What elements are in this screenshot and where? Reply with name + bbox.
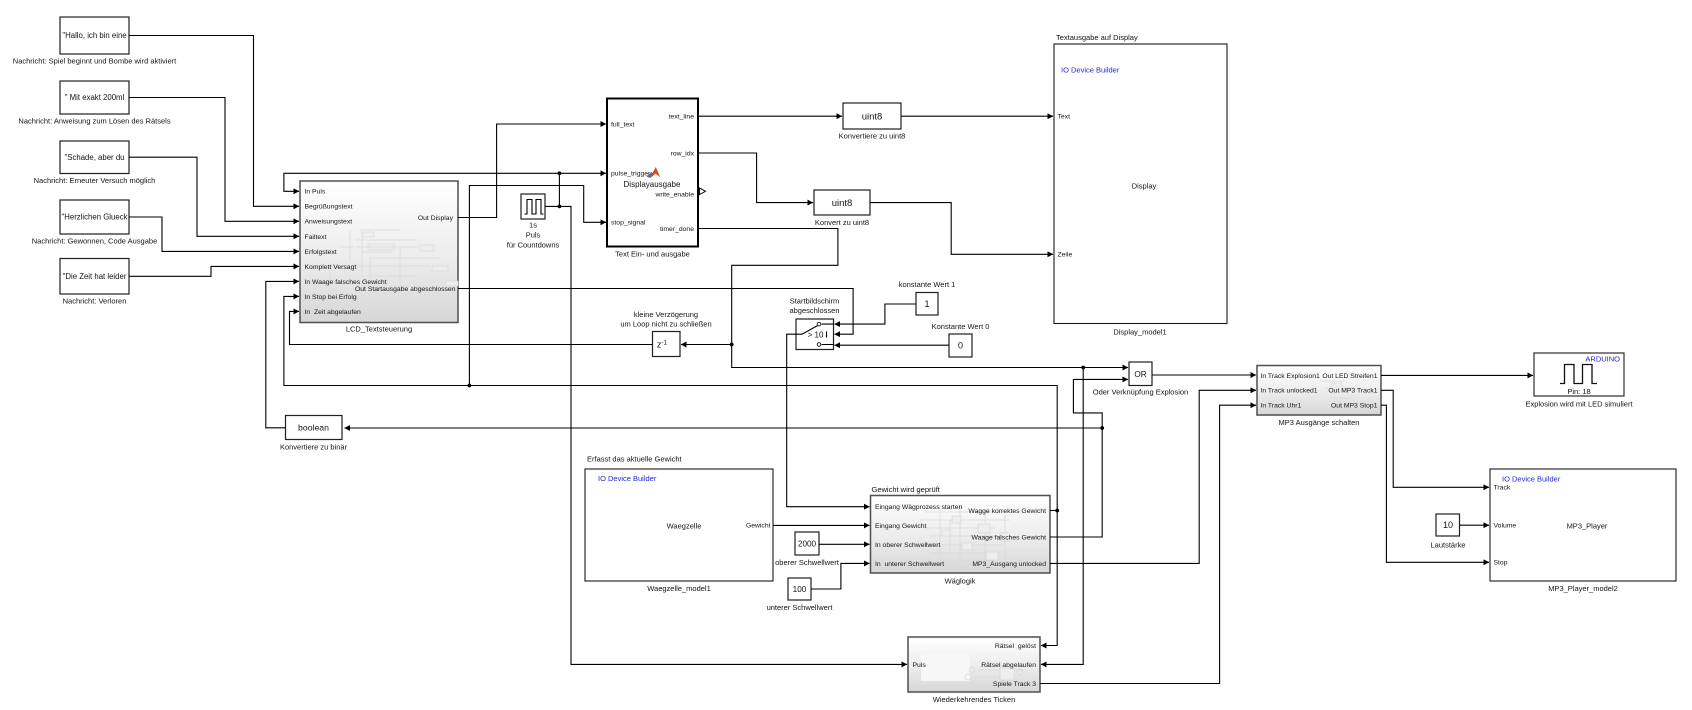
svg-text:Erfolgstext: Erfolgstext — [305, 249, 337, 256]
svg-text:für Countdowns: für Countdowns — [507, 241, 560, 250]
string constant MSG5 — [60, 259, 129, 306]
svg-text:0: 0 — [958, 341, 963, 351]
svg-text:Nachricht: Anweisung zum Lösen: Nachricht: Anweisung zum Lösen des Rätse… — [18, 117, 170, 126]
svg-text:stop_signal: stop_signal — [611, 220, 646, 227]
svg-text:konstante Wert 1: konstante Wert 1 — [899, 280, 956, 289]
wire pulse to In Puls — [284, 173, 560, 191]
svg-text:Failtext: Failtext — [305, 234, 327, 241]
wire pulse out to Puls (Ticken) — [545, 206, 907, 664]
svg-text:In oberer Schwellwert: In oberer Schwellwert — [875, 542, 940, 549]
svg-text:Track: Track — [1494, 485, 1511, 492]
svg-text:Eingang Gewicht: Eingang Gewicht — [875, 523, 926, 530]
svg-text:Nachricht: Gewonnen, Code Ausg: Nachricht: Gewonnen, Code Ausgabe — [32, 237, 158, 246]
logical operator OR — [1093, 362, 1188, 397]
svg-text:MP3_Player: MP3_Player — [1567, 522, 1608, 531]
svg-text:Display: Display — [1132, 182, 1157, 191]
MATLAB function block Text Ein- und ausgabe — [607, 99, 706, 259]
constant 0 (Konstante Wert 0) — [932, 322, 990, 357]
svg-text:In Track Uhr1: In Track Uhr1 — [1261, 403, 1302, 410]
svg-text:"Hallo, ich bin eine: "Hallo, ich bin eine — [62, 31, 126, 40]
svg-text:Rätsel abgelaufen: Rätsel abgelaufen — [981, 662, 1036, 669]
svg-text:Spiele Track 3: Spiele Track 3 — [993, 681, 1036, 688]
svg-text:Nachricht: Spiel beginnt und B: Nachricht: Spiel beginnt und Bombe wird … — [13, 57, 177, 66]
svg-text:Explosion wird mit LED simulie: Explosion wird mit LED simuliert — [1525, 400, 1633, 409]
subsystem Waeglogik — [871, 485, 1051, 586]
svg-text:Oder Verknüpfung Explosion: Oder Verknüpfung Explosion — [1093, 388, 1188, 397]
svg-text:Rätsel gelöst: Rätsel gelöst — [995, 643, 1036, 650]
svg-text:Komplett Versagt: Komplett Versagt — [305, 264, 357, 271]
svg-text:Puls: Puls — [913, 662, 927, 669]
wire row_idx to uint8 2 — [698, 153, 813, 203]
svg-text:Waegzelle_model1: Waegzelle_model1 — [647, 584, 711, 593]
svg-text:write_enable: write_enable — [654, 192, 694, 199]
svg-text:Nachricht: Erneuter Versuch mö: Nachricht: Erneuter Versuch möglich — [34, 176, 156, 185]
wire korrektes to Raetsel geloest — [1041, 511, 1057, 646]
svg-text:oberer Schwellwert: oberer Schwellwert — [775, 558, 840, 567]
svg-text:Konvertiere zu uint8: Konvertiere zu uint8 — [839, 132, 906, 141]
svg-text:In Waage falsches Gewicht: In Waage falsches Gewicht — [305, 279, 387, 286]
ARDUINO digital output Pin 18 — [1525, 353, 1633, 409]
svg-text:pulse_trigger: pulse_trigger — [611, 171, 651, 178]
svg-text:Gewicht: Gewicht — [746, 523, 771, 530]
wire uint8 to Text — [901, 115, 1053, 117]
wire uint8 2 to Zeile — [870, 203, 1053, 255]
svg-text:"Schade, aber du: "Schade, aber du — [65, 153, 125, 162]
svg-text:Begrüßungstext: Begrüßungstext — [305, 204, 353, 211]
svg-text:ARDUINO: ARDUINO — [1585, 355, 1620, 364]
svg-text:> 10: > 10 — [808, 330, 824, 339]
svg-text:In Puls: In Puls — [305, 189, 326, 196]
svg-text:In Zeit abgelaufen: In Zeit abgelaufen — [305, 309, 362, 316]
wire switch out to Eingang Waegprozess — [787, 334, 870, 507]
svg-text:Anweisungstext: Anweisungstext — [305, 219, 353, 226]
svg-text:unterer Schwellwert: unterer Schwellwert — [767, 603, 834, 612]
svg-text:Konvertiere zu binär: Konvertiere zu binär — [280, 443, 348, 452]
wire Out LED Streifen1 to Arduino — [1381, 374, 1533, 376]
wire pulse riser — [558, 173, 560, 206]
svg-text:Wagge korrektes Gewicht: Wagge korrektes Gewicht — [968, 508, 1046, 515]
wire 100 to In unterer Schwellwert — [811, 563, 870, 589]
wire korrektes to stop_signal — [469, 186, 606, 386]
svg-text:Text Ein- und ausgabe: Text Ein- und ausgabe — [615, 249, 690, 258]
data type conversion boolean — [280, 416, 348, 452]
wire falsches to OR input2 — [1050, 379, 1128, 537]
svg-text:Eingang Wägprozess starten: Eingang Wägprozess starten — [875, 504, 962, 511]
svg-text:1s: 1s — [529, 221, 537, 230]
model block Display_model1 — [1054, 33, 1227, 337]
svg-text:Waegzelle: Waegzelle — [667, 522, 702, 531]
junction falsches boolean tap — [1100, 426, 1104, 430]
svg-text:text_line: text_line — [669, 114, 695, 121]
junction korrektes — [1055, 509, 1059, 513]
svg-text:OR: OR — [1134, 370, 1146, 379]
wire const10 to Volume — [1460, 524, 1490, 526]
svg-text:MP3 Ausgänge schalten: MP3 Ausgänge schalten — [1279, 418, 1360, 427]
svg-text:Pin: 18: Pin: 18 — [1567, 387, 1590, 396]
svg-text:Wiederkehrendes Ticken: Wiederkehrendes Ticken — [933, 695, 1016, 704]
wire MSG1 to Begruessungstext — [129, 36, 299, 207]
wire timer to OR input1 — [732, 345, 1128, 368]
wire text_line to uint8 — [698, 115, 842, 117]
wire Startausgabe to switch control — [458, 289, 853, 335]
svg-text:Out LED Streifen1: Out LED Streifen1 — [1322, 373, 1377, 380]
svg-text:Out Display: Out Display — [418, 215, 454, 222]
wire unlocked to In Track unlocked1 — [1050, 390, 1256, 563]
subsystem LCD_Textsteuerung — [300, 181, 458, 334]
string constant MSG4 — [32, 200, 158, 246]
junction timer down — [1081, 366, 1085, 370]
svg-text:Displayausgabe: Displayausgabe — [624, 180, 681, 189]
svg-text:Zeile: Zeile — [1058, 252, 1073, 259]
subsystem MP3 Ausgaenge schalten — [1257, 366, 1381, 427]
wire MSG2 to Anweisungstext — [129, 98, 299, 222]
svg-text:Puls: Puls — [526, 231, 541, 240]
wire Out Display to full_text — [458, 124, 606, 218]
unit delay z^-1 — [620, 310, 711, 357]
wire OR to In Track Explosion1 — [1152, 374, 1256, 376]
wire Out MP3 Track1 to Track — [1381, 390, 1489, 487]
svg-text:IO Device Builder: IO Device Builder — [1502, 474, 1561, 483]
svg-text:Konstante Wert 0: Konstante Wert 0 — [932, 322, 990, 331]
svg-text:Erfasst das aktuelle Gewicht: Erfasst das aktuelle Gewicht — [587, 455, 683, 464]
wire Spiele Track 3 to In Track Uhr1 — [1040, 405, 1256, 683]
wire const0 to switch in3 — [835, 344, 950, 346]
svg-text:um Loop nicht zu schließen: um Loop nicht zu schließen — [620, 320, 711, 329]
wire falsches to boolean — [345, 427, 1103, 429]
svg-text:MP3_Ausgang unlocked: MP3_Ausgang unlocked — [972, 561, 1046, 568]
switch Startbildschirm abgeschlossen — [789, 297, 839, 350]
svg-text:uint8: uint8 — [862, 111, 883, 122]
svg-text:row_idx: row_idx — [671, 150, 695, 157]
svg-text:Lautstärke: Lautstärke — [1430, 541, 1465, 550]
svg-text:MP3_Player_model2: MP3_Player_model2 — [1548, 584, 1618, 593]
svg-text:Textausgabe auf Display: Textausgabe auf Display — [1056, 33, 1138, 42]
junction pulse trigger line — [558, 171, 562, 175]
svg-text:In Track Explosion1: In Track Explosion1 — [1261, 373, 1321, 380]
svg-text:IO Device Builder: IO Device Builder — [1061, 66, 1120, 75]
constant 1 (konstante Wert 1) — [899, 280, 956, 315]
wire MSG4 to Erfolgstext — [129, 217, 299, 251]
svg-text:Display_model1: Display_model1 — [1113, 328, 1166, 337]
svg-text:Gewicht wird geprüft: Gewicht wird geprüft — [872, 485, 941, 494]
wire korrektes Gewicht stub — [1050, 510, 1057, 512]
svg-text:uint8: uint8 — [832, 198, 853, 209]
svg-text:Out MP3 Stop1: Out MP3 Stop1 — [1331, 403, 1378, 410]
svg-text:IO Device Builder: IO Device Builder — [598, 474, 657, 483]
wire const1 to switch in1 — [835, 304, 917, 324]
data type conversion uint8 #2 — [814, 190, 870, 227]
wire 2000 to In oberer Schwellwert — [819, 543, 870, 545]
svg-text:2000: 2000 — [798, 539, 817, 548]
svg-text:"Herzlichen Glueck: "Herzlichen Glueck — [61, 213, 127, 222]
string constant MSG2 — [18, 81, 170, 126]
wire pulse to pulse_trigger — [559, 172, 606, 174]
svg-text:LCD_Textsteuerung: LCD_Textsteuerung — [346, 325, 412, 334]
wire Gewicht to Eingang Gewicht — [773, 524, 870, 526]
svg-text:abgeschlossen: abgeschlossen — [789, 306, 839, 315]
wire timer to z delay — [681, 344, 732, 346]
wire MSG5 to Komplett Versagt — [129, 266, 299, 276]
wire korrektes to In Stop bei Erfolg — [284, 296, 1057, 510]
svg-text:In Stop bei Erfolg: In Stop bei Erfolg — [305, 294, 357, 301]
wire boolean to In Waage falsches Gewicht — [266, 281, 299, 427]
svg-text:1: 1 — [924, 299, 929, 309]
svg-text:Stop: Stop — [1494, 560, 1508, 567]
junction pulse out — [558, 205, 562, 209]
svg-text:100: 100 — [793, 585, 807, 594]
svg-text:"Die Zeit hat leider: "Die Zeit hat leider — [63, 272, 127, 281]
svg-text:kleine Verzögerung: kleine Verzögerung — [634, 310, 698, 319]
constant 100 (unterer Schwellwert) — [767, 578, 834, 612]
svg-text:Out MP3 Track1: Out MP3 Track1 — [1328, 388, 1377, 395]
svg-text:10: 10 — [1443, 520, 1453, 530]
svg-text:timer_done: timer_done — [660, 226, 694, 233]
wire MSG3 to Failtext — [129, 157, 299, 236]
svg-text:boolean: boolean — [298, 423, 329, 433]
constant 2000 (oberer Schwellwert) — [775, 532, 840, 567]
wire z delay to In Zeit abgelaufen — [290, 311, 653, 344]
string constant MSG1 — [13, 17, 177, 66]
junction stop riser — [468, 384, 472, 388]
svg-text:Text: Text — [1058, 114, 1071, 121]
svg-text:full_text: full_text — [611, 121, 635, 128]
string constant MSG3 — [34, 141, 156, 185]
svg-text:Konvert zu uint8: Konvert zu uint8 — [815, 218, 869, 227]
pulse generator 1s Puls — [507, 194, 560, 250]
constant 10 (Lautstaerke) — [1430, 514, 1465, 550]
svg-text:Waage falsches Gewicht: Waage falsches Gewicht — [971, 534, 1046, 541]
svg-text:In unterer Schwellwert: In unterer Schwellwert — [875, 561, 944, 568]
svg-text:Nachricht: Verloren: Nachricht: Verloren — [63, 297, 127, 306]
svg-text:" Mit exakt 200ml: " Mit exakt 200ml — [65, 93, 125, 102]
junction timer z — [730, 343, 734, 347]
MATLAB logo — [647, 172, 655, 178]
svg-text:Volume: Volume — [1494, 523, 1517, 530]
data type conversion uint8 #1 — [839, 103, 906, 141]
model block Waegzelle_model1 — [585, 455, 773, 594]
subsystem Wiederkehrendes Ticken — [908, 637, 1040, 704]
wire timer to Raetsel abgelaufen — [1041, 368, 1083, 665]
svg-text:Wäglogik: Wäglogik — [945, 577, 976, 586]
wire Out MP3 Stop1 to Stop — [1381, 405, 1489, 562]
svg-text:In Track unlocked1: In Track unlocked1 — [1261, 388, 1318, 395]
model block MP3_Player_model2 — [1490, 469, 1676, 593]
svg-text:Startbildschirm: Startbildschirm — [790, 297, 840, 306]
svg-text:Out Startausgabe abgeschlossen: Out Startausgabe abgeschlossen — [355, 286, 456, 293]
wire timer_done loop — [698, 229, 838, 345]
port write_enable (unconnected output) — [700, 188, 706, 195]
